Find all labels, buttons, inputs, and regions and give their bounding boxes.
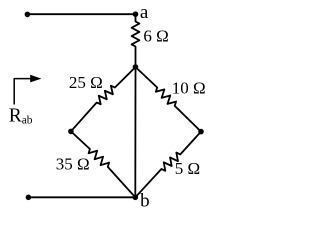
Rab arrowhead	[30, 75, 41, 83]
Rab arrow bracket	[14, 79, 33, 105]
svg-text:a: a	[140, 2, 149, 23]
svg-text:10 Ω: 10 Ω	[172, 78, 206, 97]
resistor R4 35ohm	[71, 131, 135, 197]
terminal dot bottom-left	[26, 195, 32, 201]
svg-text:Rab: Rab	[9, 105, 33, 126]
wire middle vertical: top node to node b	[134, 67, 136, 197]
wire top: terminal to node a	[27, 13, 135, 15]
svg-text:5 Ω: 5 Ω	[175, 159, 200, 178]
resistor R2 25ohm	[71, 67, 136, 131]
svg-text:6 Ω: 6 Ω	[143, 27, 168, 46]
resistor R1 6ohm	[132, 14, 140, 67]
svg-text:25 Ω: 25 Ω	[69, 73, 103, 92]
node b dot	[133, 195, 139, 201]
resistor R3 10ohm	[136, 67, 202, 132]
terminal dot top-left	[25, 12, 31, 18]
svg-text:35 Ω: 35 Ω	[56, 154, 90, 173]
right bridge node dot	[198, 129, 204, 135]
node a dot	[133, 11, 139, 17]
left bridge node dot	[68, 129, 74, 135]
svg-text:b: b	[140, 191, 150, 212]
top bridge node dot	[133, 64, 139, 70]
wire bottom: terminal to node b	[28, 196, 135, 198]
resistor R5 5ohm	[135, 132, 201, 198]
